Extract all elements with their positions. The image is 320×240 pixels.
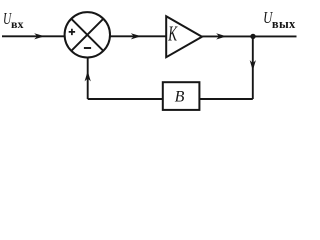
- svg-text:В: В: [175, 88, 185, 105]
- svg-text:вх: вх: [11, 17, 23, 31]
- svg-text:К: К: [168, 22, 178, 46]
- svg-text:вых: вых: [272, 17, 296, 31]
